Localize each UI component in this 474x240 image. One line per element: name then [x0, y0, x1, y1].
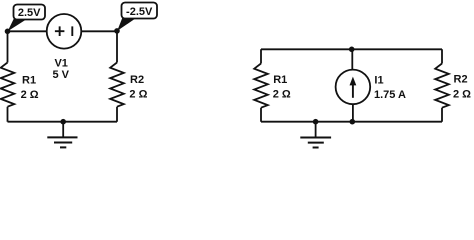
- node A (top-left node of left circuit): [5, 29, 11, 35]
- svg-text:5 V: 5 V: [52, 69, 69, 81]
- svg-text:R2: R2: [454, 74, 468, 86]
- wire: right circuit top rail: [261, 48, 442, 50]
- wire: left circuit left branch vertical: [7, 31, 9, 121]
- wire: left circuit right branch vertical: [116, 31, 118, 121]
- wire: right circuit left branch vertical: [260, 49, 262, 121]
- svg-text:I1: I1: [374, 75, 383, 87]
- svg-text:2 Ω: 2 Ω: [273, 89, 291, 101]
- callout label 2.5V (node A voltage): [8, 5, 45, 32]
- wire: left circuit bottom rail: [8, 121, 118, 123]
- wire: current source branch: [351, 49, 354, 121]
- resistor R1 (right circuit): [254, 64, 291, 108]
- ground (left circuit): [47, 119, 77, 148]
- svg-text:R1: R1: [273, 74, 287, 86]
- svg-text:R2: R2: [130, 74, 144, 86]
- wire: right circuit right branch vertical: [441, 49, 443, 121]
- voltage source V1: [47, 14, 82, 81]
- node: top junction of current source branch: [349, 47, 355, 53]
- svg-text:2 Ω: 2 Ω: [21, 89, 39, 101]
- svg-text:1.75 A: 1.75 A: [374, 89, 406, 101]
- node B (top-right node of left circuit): [114, 28, 120, 34]
- current source I1: [336, 70, 406, 105]
- svg-text:2 Ω: 2 Ω: [453, 88, 471, 100]
- ground (right circuit): [300, 119, 331, 148]
- wire: left circuit top rail: [8, 30, 118, 32]
- node: bottom junction of current source branch: [350, 119, 356, 125]
- resistor R2 (right circuit): [435, 64, 471, 108]
- resistor R1 (left circuit): [1, 63, 39, 107]
- svg-text:2 Ω: 2 Ω: [129, 89, 147, 101]
- svg-text:-2.5V: -2.5V: [126, 6, 153, 18]
- wire: right circuit bottom rail: [261, 121, 442, 123]
- resistor R2 (left circuit): [110, 63, 147, 107]
- svg-text:R1: R1: [22, 75, 36, 87]
- svg-text:2.5V: 2.5V: [18, 7, 41, 19]
- callout label -2.5V (node B voltage): [117, 3, 157, 31]
- svg-text:V1: V1: [54, 57, 67, 69]
